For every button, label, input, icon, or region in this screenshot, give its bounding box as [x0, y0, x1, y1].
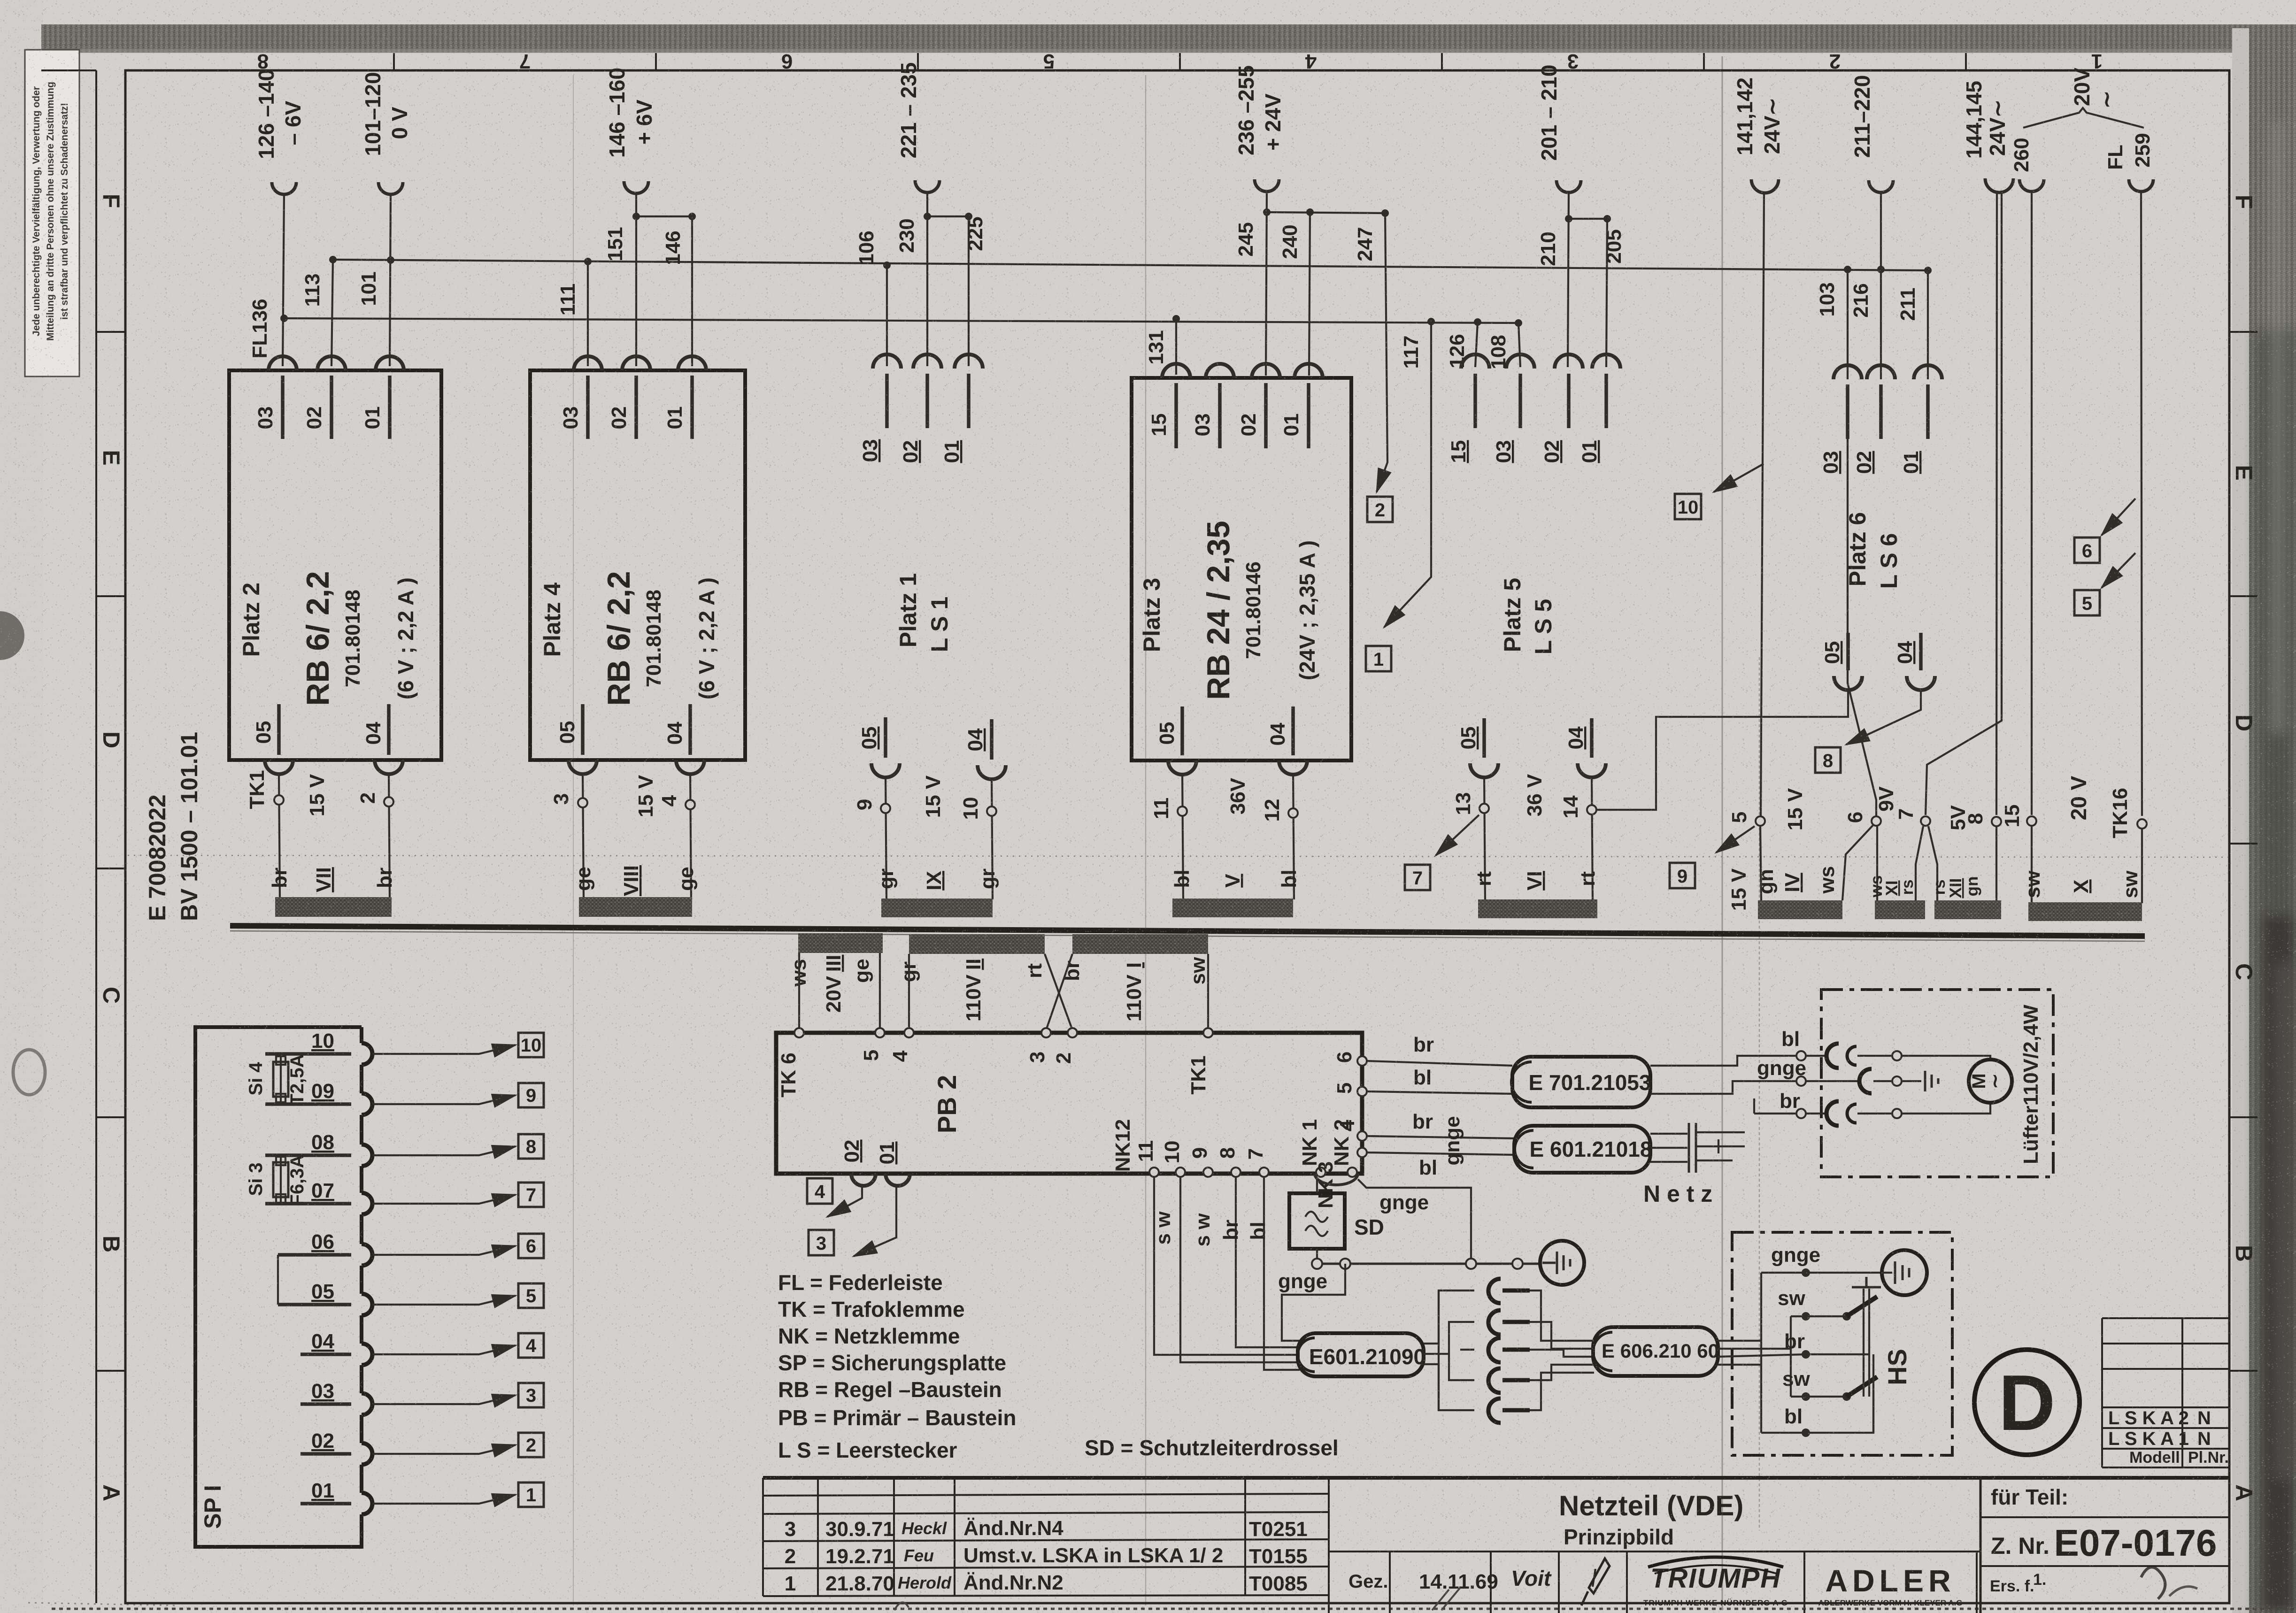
terminal 14 [1587, 805, 1596, 814]
terminal NK3 [1357, 1148, 1367, 1157]
module RB2 Platz 4 box [530, 370, 745, 760]
node 247 [1381, 209, 1389, 217]
wire 141/142 down to terminal 5 [1761, 192, 1764, 817]
pin 05 of Platz2 [265, 760, 293, 774]
Luefter dash-dot box [1821, 990, 2053, 1177]
wire 12 [1293, 773, 1294, 899]
terminal 5 [1756, 816, 1765, 826]
wire 216 stub down [1880, 192, 1882, 269]
title block top line [763, 1476, 2229, 1480]
primary winding bar II (110V) [909, 934, 1045, 954]
wire Platz6-04 to ref 8 [1846, 688, 1921, 745]
pin 01 of Platz5 [1592, 354, 1620, 369]
wire 145 down to terminal 7 [1926, 191, 2002, 815]
switch blade top [1847, 1297, 1877, 1316]
wire bl to Luefter [1650, 1056, 1795, 1066]
fold line vertical 3 [1722, 56, 1723, 1610]
module RB1 Platz 2 box [229, 370, 441, 760]
SP I connector 06 [362, 1244, 372, 1266]
connector FL 126-140 [272, 182, 296, 194]
link 210-205 [1569, 218, 1607, 220]
terminal gnge [1796, 1076, 1806, 1086]
terminal 12 [1288, 808, 1298, 818]
wire ws to TK6 [798, 953, 800, 1030]
pin 03 of Platz1 [873, 354, 901, 369]
wire 247 to ref 2 [1377, 213, 1387, 492]
wire rt crossover [1045, 954, 1072, 1030]
connector assembly rails left [1424, 1290, 1474, 1344]
pin 03 of Platz4 [574, 356, 602, 370]
terminal TK1 [1203, 1028, 1213, 1037]
node 230 [924, 213, 931, 220]
SP I connector 01 [362, 1493, 372, 1514]
terminal 11 of PB2 [1149, 1168, 1159, 1177]
arrow to ref 5 [2102, 553, 2135, 588]
pin 01 of Platz6 [1914, 365, 1942, 379]
wire 3 [583, 772, 584, 899]
primary winding bar III (20V) [798, 933, 883, 953]
connector pair row1 [1488, 1279, 1501, 1303]
wire 210 [1568, 192, 1569, 367]
wire 14 [1592, 776, 1593, 900]
node 111 [584, 258, 592, 265]
pen nib icon [1581, 1559, 1610, 1605]
connector FL 259 [2129, 179, 2153, 192]
wire 117 to ref 1 [1384, 322, 1431, 627]
pin 03 of Platz3 [1206, 364, 1234, 378]
wire 4 [690, 772, 691, 899]
right edge segments [360, 1027, 363, 1524]
wire FL259 down to TK16 [2141, 192, 2142, 816]
pin 04 of Platz2 [375, 760, 403, 774]
wire 13 [1484, 776, 1485, 900]
terminal 10 of PB2 [1176, 1168, 1185, 1177]
pin 02 of Platz6 [1867, 365, 1895, 379]
terminal 6 right [1357, 1056, 1367, 1066]
wire 260 down to terminal 15 [2031, 192, 2033, 815]
pin 04 of Platz1 [978, 765, 1006, 779]
wire 144 down to terminal 8 [1996, 191, 1997, 815]
pins from terminal 7 split [1916, 826, 1923, 901]
cable E701.21053 [1512, 1057, 1650, 1107]
terminal TK1 [274, 795, 284, 805]
switch link bars [1863, 1289, 1865, 1397]
wire 245 [1266, 192, 1267, 376]
connector FL 101-120 [378, 182, 403, 194]
wire 211 [1927, 270, 1929, 379]
ground bus [1317, 1263, 1539, 1265]
SP I connector 05 [362, 1294, 372, 1315]
dotted fold separator line [128, 855, 2228, 857]
node 146 [688, 213, 696, 220]
pin 15 of Platz3 [1162, 364, 1190, 378]
link 06-05 [277, 1255, 279, 1305]
terminal TK16 [2137, 819, 2147, 829]
terminal 9 of PB2 [1203, 1168, 1213, 1177]
terminal 4 [686, 800, 695, 809]
pin 01 of Platz2 [376, 356, 404, 370]
connector pair bl [1806, 1055, 1826, 1057]
Gez row [1390, 1552, 1627, 1613]
wire 240 [1309, 212, 1310, 376]
top scan band [41, 24, 2296, 53]
pin 05 of Platz6 [1834, 676, 1862, 690]
terminal 3 of PB2 [1041, 1028, 1051, 1037]
right scan band [2232, 28, 2251, 1613]
pin 02 of Platz3 [1252, 364, 1280, 378]
Netz plug symbol [1688, 1123, 1690, 1173]
pin 03 of Platz6 [1834, 365, 1862, 379]
wire 9 [886, 776, 886, 899]
connector pair br [1806, 1113, 1826, 1114]
LSKA model table [2102, 1318, 2229, 1467]
wire gr to terminal 4 [908, 954, 910, 1030]
SP I connector 03 [362, 1393, 372, 1415]
pin 05 of Platz1 [871, 763, 900, 777]
wire SD top [1316, 1177, 1318, 1193]
wire gnge to Luefter [1650, 1081, 1795, 1094]
pin 03 of Platz5 [1506, 354, 1534, 369]
wire 2 [389, 772, 390, 899]
pin 05 of Platz5 [1470, 763, 1498, 777]
choke SD [1289, 1193, 1345, 1249]
winding bar Platz3 [1172, 899, 1293, 917]
zone ticks top [394, 53, 1966, 70]
connector FL 260 [2019, 179, 2044, 192]
pin from terminal 6 down [1876, 826, 1878, 900]
winding bar Platz1 [881, 899, 993, 917]
earth circle HS [1882, 1250, 1927, 1295]
cable E601.21090 [1298, 1333, 1424, 1376]
node 108 [1515, 319, 1522, 327]
ref box 3 [809, 1230, 834, 1255]
wire br to Luefter [1754, 1113, 1795, 1114]
pin 04 of Platz3 [1279, 760, 1307, 775]
pin 04 of Platz4 [676, 760, 704, 774]
terminal 2 [384, 797, 393, 806]
node 216 [1877, 266, 1885, 273]
wire ge to terminal 5 [879, 953, 881, 1030]
wire TK1 [279, 772, 280, 899]
node 103 [1844, 266, 1851, 273]
wire 106 [886, 265, 888, 366]
SP I connector 02 [362, 1443, 372, 1465]
pin 02 of Platz1 [913, 354, 941, 369]
wire 108 [1518, 323, 1520, 367]
terminal TK6 [794, 1028, 804, 1037]
terminal NK2 [1348, 1168, 1357, 1177]
motor M [1969, 1060, 2012, 1103]
wire sw to TK1 [1207, 954, 1209, 1030]
SP I box outline [195, 1027, 362, 1547]
pin from terminal TK16 [2141, 829, 2143, 903]
wires from E606 cable into HS [1718, 1340, 1761, 1342]
ref box 10 [1675, 494, 1701, 519]
HS dash-dot box [1732, 1232, 1952, 1455]
ref box 1 [1366, 646, 1391, 671]
punch hole ring left edge [13, 1050, 45, 1095]
pin 02 of Platz2 [317, 356, 346, 370]
node 106 [883, 261, 891, 269]
SP I connector 07 [362, 1193, 372, 1214]
winding bar Platz5 [1478, 899, 1597, 918]
terminal 8 of PB2 [1231, 1168, 1240, 1177]
arrow to ref 6 [2102, 499, 2135, 535]
wire sw from PB2-10 [1180, 1177, 1300, 1362]
zone letters left [98, 194, 124, 1501]
connector FL 146-160 [624, 181, 648, 193]
winding bar Platz6 group1 [1758, 900, 1842, 919]
pin 05 of Platz4 [569, 760, 597, 774]
terminal NK1 [1316, 1168, 1325, 1177]
wire br from PB2-8 [1236, 1177, 1300, 1347]
pin 01 of Platz4 [678, 356, 706, 370]
wire 131 [1175, 319, 1177, 375]
wire SD bottom to ground bus [1316, 1249, 1318, 1262]
SP I connector 04 [362, 1344, 372, 1365]
terminal 5 of PB2 [875, 1028, 885, 1037]
zone numbers top (upside down) [257, 50, 2103, 73]
HS left rails [1760, 1273, 1762, 1433]
terminal 6 [1872, 816, 1881, 826]
zone letters right [2231, 195, 2257, 1501]
pin from terminal 15 [2031, 826, 2033, 902]
node 126 [1474, 318, 1481, 326]
node 245 [1263, 208, 1271, 216]
node 151 [632, 213, 640, 220]
node 205 [1603, 215, 1611, 223]
fuse Si3 F6,3A [280, 1155, 282, 1204]
pin ws diagonal to terminal 6 [1842, 825, 1873, 900]
module RB3 Platz 3 box [1132, 378, 1351, 760]
wire 101 [390, 194, 391, 366]
fold line vertical 2 [1145, 75, 1147, 1605]
winding bar Platz6 group4 [2028, 902, 2142, 921]
wire gnge to cable E601.21090 [1282, 1264, 1345, 1341]
node 131 [1172, 315, 1180, 323]
wire bl from PB2-7 [1264, 1177, 1300, 1370]
revision table [763, 1478, 1329, 1613]
terminal 2 of PB2 [1068, 1028, 1077, 1037]
pin from terminal 8 [1996, 826, 1997, 902]
link 245-240-247 [1267, 212, 1385, 213]
wire br PB2-4 to cable [1367, 1136, 1514, 1138]
terminal 3 [578, 798, 587, 807]
bus line L1 (wires 101/111/106/103) [333, 260, 1928, 270]
title cell [1329, 1551, 1980, 1552]
connector FL 211-220 [1869, 180, 1893, 192]
bottom scan edge dotted line [52, 1608, 2296, 1610]
link 230-225 [927, 215, 969, 217]
wire 11 [1182, 773, 1183, 899]
connector gnge [1806, 1080, 1859, 1082]
pin 01 of PB2 bottom [886, 1174, 910, 1186]
wire bl NK3 to cable [1367, 1152, 1514, 1155]
arrow to ref 9 [1716, 826, 1755, 853]
SP I connector 10 [362, 1043, 372, 1065]
pin gn from terminal 5 [1760, 826, 1761, 900]
node FL136 [280, 315, 288, 322]
TRIUMPH logo box [1803, 1552, 1805, 1613]
terminal 7 [1921, 816, 1930, 826]
winding bar Platz6 group3 [1934, 900, 2001, 919]
terminal bl [1796, 1051, 1806, 1060]
terminal 10 [987, 806, 996, 816]
pin 05 of Platz3 [1168, 760, 1196, 775]
gnge line to earth [1761, 1272, 1882, 1274]
module PB2 box [776, 1033, 1362, 1174]
ref box 6 [2074, 538, 2100, 563]
connector FL 236-255 [1255, 179, 1279, 192]
connector pair row5 [1488, 1398, 1501, 1423]
arrow 02 to ref 4 [827, 1187, 862, 1217]
terminal 5 right [1357, 1087, 1367, 1096]
wire 216 [1880, 269, 1882, 379]
wire 103 [1847, 269, 1849, 379]
wire gnge from NK bracket [1315, 1174, 1358, 1185]
node 113 [329, 256, 337, 263]
connector assembly rails right [1530, 1290, 1594, 1341]
terminal 13 [1479, 804, 1489, 813]
wire Platz6-05 to node 14 [1597, 688, 1848, 810]
ref box 8 [1815, 747, 1841, 773]
letter D circle [1974, 1350, 2080, 1455]
pin 01 of Platz1 [955, 354, 983, 369]
terminal 9 [881, 804, 890, 813]
ground symbol small [1924, 1071, 1926, 1091]
wire 230 [926, 192, 928, 366]
cable E606.21060 [1593, 1327, 1718, 1376]
wires E601.21018 to Netz plug [1650, 1133, 1687, 1135]
bus line L2 (FL136) [284, 318, 1518, 323]
wire 151 [635, 193, 637, 366]
terminal 4 right [1357, 1131, 1367, 1141]
ref box 9 [1670, 863, 1695, 888]
wire 225 [968, 216, 970, 366]
node 211 [1924, 267, 1932, 274]
winding bar Platz4 [579, 897, 692, 917]
ref box 4 [807, 1178, 832, 1204]
fuse Si4 T2,5A [280, 1054, 282, 1104]
wire 113 [331, 260, 333, 366]
wire br PB2-6 to cable [1367, 1061, 1512, 1066]
connector pair row4 [1488, 1368, 1501, 1393]
connector pair row3 [1488, 1338, 1501, 1362]
zone ticks right [2229, 332, 2257, 1371]
terminal 4 of PB2 [904, 1028, 914, 1037]
transformer core line [230, 926, 2145, 936]
connector FL 221-235 [915, 180, 940, 192]
arrow to ref 7 [1436, 815, 1479, 855]
terminal 15 [2027, 816, 2036, 826]
node 225 [965, 213, 972, 220]
pin 02 of Platz5 [1555, 354, 1583, 369]
wire 126 [1475, 322, 1478, 367]
node 117 [1427, 318, 1435, 325]
pin 02 of Platz4 [622, 356, 650, 370]
arrow to ref 10 [1714, 464, 1764, 492]
winding bar Platz6 group2 [1875, 900, 1925, 919]
copyright label box top-left [25, 50, 79, 376]
connector pair row2 [1488, 1310, 1501, 1335]
link 151-146 [636, 215, 692, 217]
wire 111 [587, 261, 589, 366]
wire 205 [1606, 219, 1607, 367]
terminal 11 [1178, 806, 1187, 816]
punch hole half-disc left edge [0, 611, 24, 660]
wire br crossover [1046, 954, 1072, 1030]
wire 10 [992, 777, 993, 899]
SP I connector 09 [362, 1093, 372, 1115]
ground symbol circle [1540, 1241, 1584, 1285]
wire 126-140 down to Platz2 pin 03 [283, 194, 284, 366]
handwriting marks [2141, 1567, 2165, 1599]
ref box 7 [1405, 865, 1430, 890]
node 240 [1306, 208, 1314, 216]
winding bar Platz2 [275, 897, 392, 917]
ref box 2 [1367, 497, 1393, 522]
terminal br [1796, 1109, 1806, 1118]
pin 15 of Platz5 [1461, 354, 1489, 369]
connector FL 141,142 [1751, 179, 1779, 193]
switch blade bottom [1847, 1377, 1877, 1397]
primary winding bar I (110V) [1072, 934, 1208, 954]
pin 04 of Platz5 [1578, 763, 1606, 777]
SP I connector 08 [362, 1144, 372, 1166]
wire sw from PB2-11 [1154, 1177, 1300, 1355]
zone ticks left [96, 332, 125, 1371]
fold line vertical 4 [1759, 657, 1760, 1530]
ref box 5 [2074, 590, 2100, 615]
fuer Teil cell [1980, 1478, 1982, 1613]
pin 01 of Platz3 [1294, 364, 1323, 378]
node 210 [1565, 215, 1572, 223]
terminal 8 [1992, 817, 2001, 826]
connector FL 201-210 [1556, 180, 1581, 192]
wire 146 [691, 216, 693, 366]
connector FL 144,145 [1985, 178, 2013, 192]
cable E601.21018 [1514, 1126, 1650, 1173]
brace 20V [2023, 108, 2144, 128]
wire 103 down to terminal 6 [1848, 439, 1876, 817]
pin 03 of Platz2 [269, 356, 297, 370]
terminal 7 of PB2 [1259, 1168, 1269, 1177]
arrow 01 to ref 3 [854, 1187, 896, 1256]
pin 02 of PB2 bottom [851, 1174, 876, 1186]
right bus of switch [1872, 1354, 1874, 1433]
fold line vertical 1 [573, 75, 574, 1605]
wire bl PB2-5 to cable [1367, 1091, 1512, 1094]
pin 04 of Platz6 [1907, 676, 1935, 690]
